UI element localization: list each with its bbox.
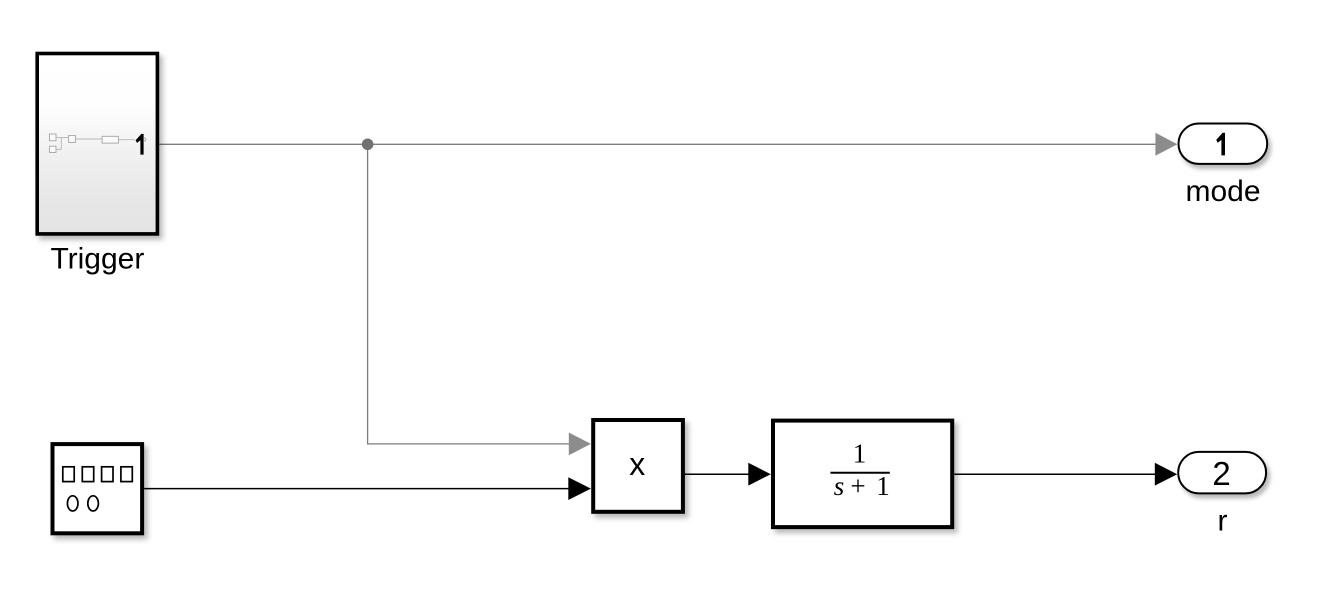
svg-text:+: + [850,471,865,501]
svg-text:Trigger: Trigger [50,243,144,276]
svg-text:1: 1 [876,471,890,501]
svg-text:r: r [1218,505,1228,538]
svg-text:mode: mode [1185,175,1260,208]
svg-text:2: 2 [1212,455,1230,492]
svg-text:1: 1 [853,439,867,469]
svg-text:s: s [834,471,845,501]
svg-text:x: x [629,446,645,482]
